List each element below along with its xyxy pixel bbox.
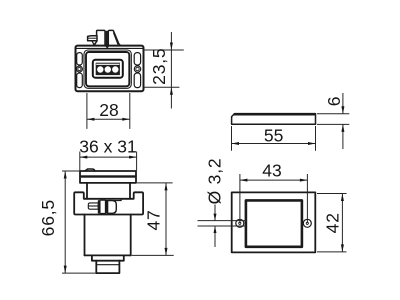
ext line left bbox=[239, 174, 241, 223]
svg-text:42: 42 bbox=[323, 212, 343, 233]
plate outer rect bbox=[232, 192, 316, 252]
center connector bbox=[93, 60, 123, 78]
dimension 42 (right of face view) bbox=[317, 194, 347, 252]
dim line bbox=[87, 118, 130, 120]
arrow 43 right bbox=[300, 179, 308, 182]
latch assembly on top bbox=[88, 30, 121, 48]
arrow 23,5 bottom (up) bbox=[170, 87, 173, 95]
ext line right bbox=[306, 174, 308, 223]
arrow 47 bottom (down) bbox=[165, 248, 168, 256]
svg-text:66,5: 66,5 bbox=[38, 199, 58, 236]
arrow 6 bottom (up) bbox=[341, 124, 344, 131]
left post bbox=[94, 30, 105, 45]
step rect bbox=[92, 255, 124, 260]
left flange circle bbox=[76, 66, 82, 72]
dimension 6 (right of cover plate) bbox=[317, 93, 349, 149]
pin circle 1 bbox=[97, 66, 103, 72]
dimension 55 (below cover plate) bbox=[232, 126, 316, 151]
ext line left bbox=[79, 152, 81, 171]
leader line upper bbox=[214, 205, 216, 221]
arrow 36x31 right bbox=[129, 156, 137, 159]
dark bar 2 bbox=[105, 200, 107, 213]
svg-text:36 x 31: 36 x 31 bbox=[79, 136, 136, 156]
dimension 28 (below front view) bbox=[87, 93, 130, 129]
arrow 42 bottom (down) bbox=[341, 244, 344, 252]
left tab bbox=[88, 36, 97, 41]
inner rounded rect inner line bbox=[86, 52, 129, 86]
svg-text:43: 43 bbox=[262, 160, 281, 180]
svg-text:28: 28 bbox=[99, 100, 118, 120]
left tab mid line bbox=[88, 37, 97, 39]
arrow 66,5 top (up) bbox=[64, 171, 67, 179]
white strip bbox=[96, 63, 119, 65]
tangent line top bbox=[198, 220, 246, 222]
dim line bbox=[80, 156, 137, 158]
small box left bbox=[88, 203, 98, 209]
hole right bbox=[303, 219, 311, 227]
connector outer rounded rect bbox=[93, 60, 123, 78]
arrow 6 top (down) bbox=[341, 106, 344, 114]
arrow 66,5 bottom (down) bbox=[64, 266, 67, 274]
dim line bbox=[232, 143, 316, 145]
connector inner dark block bbox=[96, 63, 120, 75]
tab support diagonal bbox=[92, 41, 94, 45]
left flange cutout bottom bbox=[77, 73, 83, 88]
box mid line bbox=[88, 205, 98, 207]
tab step top bbox=[113, 199, 122, 201]
notch wedge under gap bbox=[105, 46, 110, 49]
svg-text:Ø 3,2: Ø 3,2 bbox=[204, 158, 224, 205]
window inner rect bbox=[246, 200, 302, 246]
right flange circle bbox=[134, 66, 140, 72]
dark bar 1 bbox=[98, 200, 101, 213]
svg-text:23,5: 23,5 bbox=[149, 48, 169, 85]
pin circle 3 bbox=[112, 66, 118, 72]
pin circle 2 bbox=[105, 66, 111, 72]
rounded tab right bbox=[108, 201, 117, 214]
ext line top bbox=[62, 170, 80, 172]
ext line top bbox=[137, 182, 173, 184]
arrow 23,5 top (down) bbox=[170, 43, 173, 51]
ext line bottom bbox=[144, 86, 180, 88]
arrow 55 left bbox=[232, 142, 240, 145]
arrow 3,2 top (down) bbox=[214, 214, 217, 221]
clip bracket bbox=[74, 192, 143, 214]
right flange cutout bottom bbox=[134, 73, 140, 88]
leader line lower bbox=[214, 226, 216, 247]
dim line bbox=[341, 194, 343, 252]
plate top thick edge bbox=[234, 113, 316, 115]
arrow 42 top (up) bbox=[341, 194, 344, 202]
ext line bottom bbox=[317, 251, 347, 253]
dimension 23,5 (right of front view) bbox=[144, 32, 184, 109]
dimension 47 (right of side view) bbox=[132, 183, 174, 256]
dimension Ø 3,2 (left hole callout) bbox=[198, 205, 246, 248]
ext line right bbox=[129, 93, 131, 129]
ext line bottom bbox=[62, 272, 96, 274]
clip latch detail bbox=[88, 199, 121, 213]
body outer bbox=[76, 46, 144, 92]
neck left line bbox=[86, 183, 88, 199]
arrow 47 top (up) bbox=[165, 183, 168, 191]
tangent line bottom bbox=[198, 225, 246, 227]
gap between posts (dark) bbox=[106, 31, 108, 45]
arrow 36x31 left bbox=[80, 156, 88, 159]
dimension 43 (above face view, hole spacing) bbox=[240, 174, 308, 223]
plate dark band bbox=[81, 175, 136, 177]
plate outline bbox=[232, 114, 316, 125]
dimension 36 x 31 (above side view) bbox=[80, 152, 137, 171]
dim line bbox=[240, 179, 308, 181]
dimension 66,5 (left of side view) bbox=[62, 171, 96, 273]
body top inner line bbox=[77, 47, 143, 49]
dim line bbox=[342, 93, 344, 114]
white bar outline bbox=[100, 200, 105, 213]
ext line left bbox=[231, 126, 233, 151]
dim line bbox=[165, 183, 167, 256]
right flange cutout top bbox=[134, 53, 140, 65]
wedge inner line bbox=[113, 33, 118, 45]
plate bump bbox=[85, 169, 95, 171]
bottom connector bbox=[96, 261, 119, 273]
ext line top bbox=[317, 113, 349, 115]
arrow 28 left bbox=[87, 118, 95, 121]
ext line left bbox=[86, 93, 88, 129]
body below clip left bbox=[84, 215, 86, 256]
connector inner line bbox=[96, 264, 119, 266]
hole left bbox=[236, 219, 244, 227]
svg-text:55: 55 bbox=[264, 125, 283, 145]
ext line right bbox=[136, 152, 138, 171]
ext line right bbox=[315, 126, 317, 151]
top plate outline bbox=[80, 171, 136, 183]
dim line bbox=[170, 32, 172, 50]
ext line bottom bbox=[132, 254, 174, 256]
body bottom line bbox=[85, 254, 131, 256]
svg-text:47: 47 bbox=[144, 209, 164, 230]
inner rounded rect outer line bbox=[84, 50, 131, 88]
neck right line bbox=[129, 183, 131, 199]
arrow 3,2 bottom (up) bbox=[214, 226, 217, 233]
left flange cutout top bbox=[77, 53, 83, 65]
ext line bottom bbox=[317, 123, 349, 125]
body below clip right bbox=[130, 215, 132, 256]
dim line bbox=[64, 171, 66, 273]
ext line top bbox=[317, 193, 347, 195]
arrow 43 left bbox=[240, 179, 248, 182]
right post with chamfer wedge bbox=[108, 30, 120, 45]
arrow 28 right bbox=[122, 118, 130, 121]
ext line top bbox=[144, 49, 184, 51]
arrow 55 right bbox=[308, 142, 316, 145]
svg-text:6: 6 bbox=[324, 97, 344, 107]
